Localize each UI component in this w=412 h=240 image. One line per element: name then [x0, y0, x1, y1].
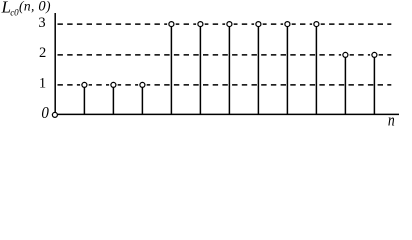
svg-text:n: n: [388, 111, 395, 130]
svg-text:0: 0: [41, 104, 49, 122]
svg-text:1: 1: [39, 75, 46, 91]
svg-text:2: 2: [39, 45, 46, 61]
svg-text:3: 3: [38, 15, 45, 31]
